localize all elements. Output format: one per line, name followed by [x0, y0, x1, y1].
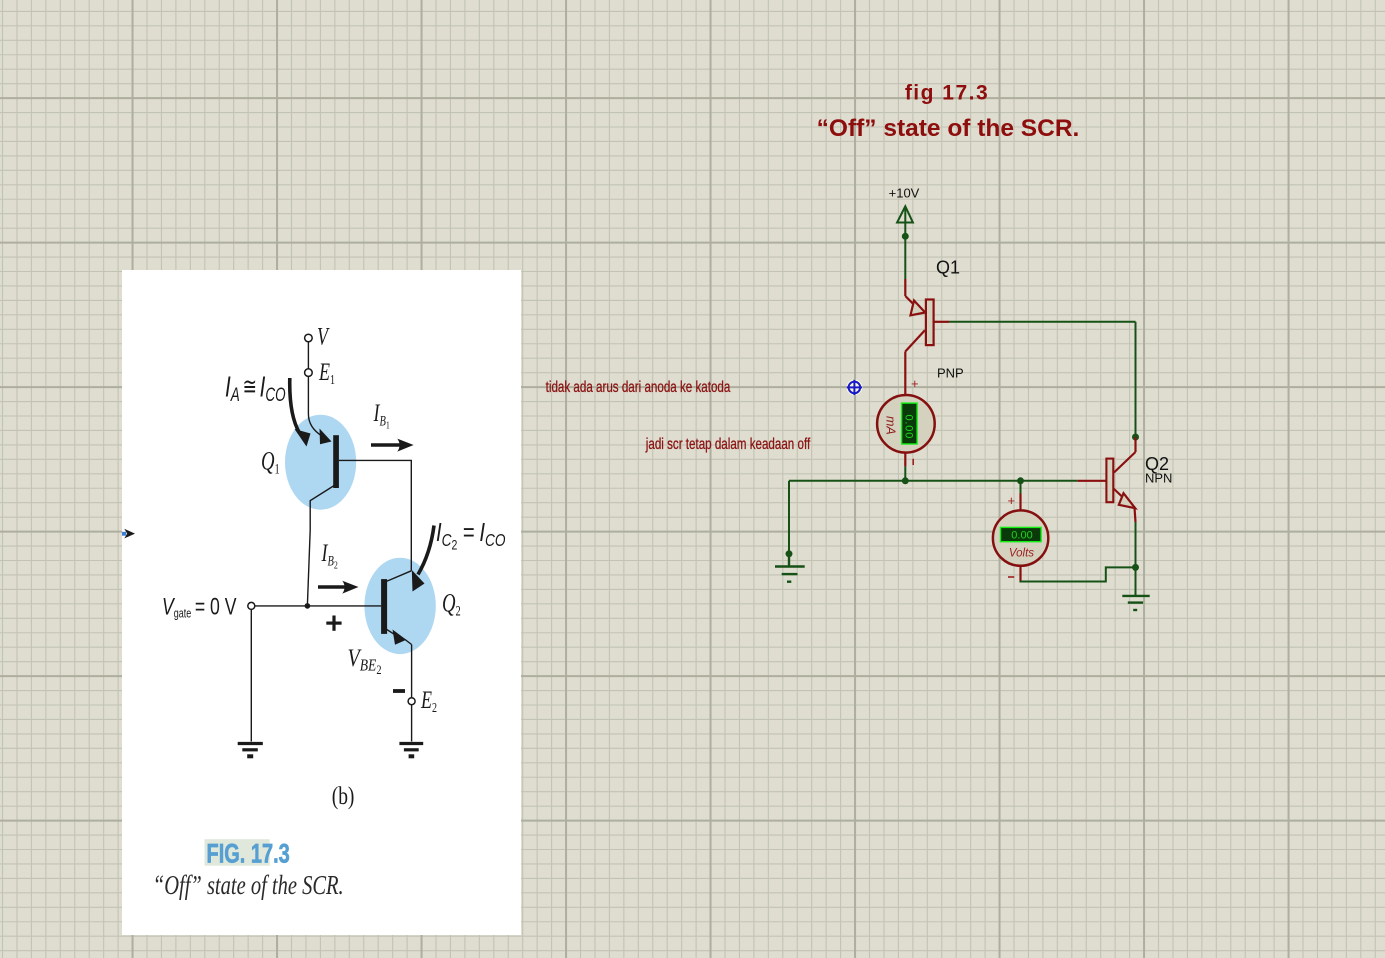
Q1 highlight ellipse (textbook) — [285, 415, 356, 510]
wire left leg down to ground — [788, 481, 790, 554]
label IB1 — [373, 399, 390, 432]
wire right rail down to Q2 collector node — [1135, 322, 1137, 437]
Q2 base bar — [1106, 459, 1113, 503]
svg-text:Q1: Q1 — [936, 258, 960, 278]
ground symbol textbook left — [238, 744, 263, 757]
junction dot at power node — [902, 233, 909, 240]
label IC2 = ICO — [436, 518, 505, 553]
svg-text:jadi scr tetap dalam keadaan o: jadi scr tetap dalam keadaan off — [645, 435, 810, 452]
label (b) — [332, 782, 355, 810]
Q1 collector line (textbook) — [307, 485, 335, 605]
IC2 thick curved arrow — [412, 526, 434, 592]
voltmeter Volts unit label — [1009, 547, 1034, 559]
Q2 base bar (textbook) — [381, 579, 387, 634]
power terminal +10V label — [889, 186, 920, 201]
Q1 label — [936, 258, 960, 278]
FIG. 17.3 highlight box — [205, 839, 270, 866]
svg-text:mA: mA — [884, 416, 898, 435]
ground symbol left — [775, 554, 805, 582]
annotation: tidak ada arus dari anoda ke katoda — [546, 378, 731, 395]
voltmeter top pin red part — [1019, 494, 1021, 511]
voltmeter bottom pin — [1019, 566, 1021, 582]
ammeter LCD reading 0.00 — [903, 415, 915, 440]
IB1 thick arrow — [371, 439, 414, 452]
label Q2 (textbook) — [442, 589, 461, 620]
ground symbol textbook right — [399, 744, 423, 757]
Q1 PNP emitter arrow (points into base) — [911, 301, 926, 316]
ammeter plus label — [911, 376, 919, 391]
terminal Vgate — [248, 602, 255, 609]
svg-text:+: + — [911, 376, 919, 391]
label V — [317, 323, 330, 351]
label E1 — [318, 358, 335, 387]
junction dot above left ground — [786, 550, 793, 557]
junction dot emitter node — [1132, 564, 1139, 571]
cursor marker at panel edge — [122, 529, 135, 539]
voltmeter LCD reading 0.00 — [1011, 529, 1032, 541]
voltmeter LCD display — [1001, 527, 1042, 541]
voltmeter plus label — [1008, 493, 1016, 508]
junction dot voltmeter tap — [1017, 477, 1024, 484]
gate wire to Q2 base — [255, 605, 381, 607]
junction dot Q2 collector node — [1132, 434, 1139, 441]
svg-text:tidak ada arus dari anoda ke k: tidak ada arus dari anoda ke katoda — [546, 378, 731, 395]
Q2 emitter line with arrow (textbook) — [386, 629, 412, 645]
Q2 highlight ellipse (textbook) — [364, 558, 435, 654]
Q1 collector pin — [905, 330, 925, 395]
schematic title line 2 — [817, 115, 1080, 142]
IA thick curved arrow — [290, 378, 311, 447]
wire ammeter to ground rail — [904, 466, 906, 480]
plus sign (textbook) — [326, 616, 341, 631]
ammeter minus label — [912, 459, 914, 465]
Q2 emitter pin with NPN arrow — [1114, 489, 1124, 498]
Q2 base pin stub — [1077, 480, 1106, 482]
ammeter body — [877, 395, 935, 453]
label E2 — [420, 686, 437, 715]
svg-text:Vgate= 0 V: Vgate= 0 V — [162, 593, 237, 621]
FIG. 17.3 caption — [207, 839, 290, 870]
minus sign (textbook) — [393, 689, 405, 693]
Q1 base bar (textbook) — [333, 435, 339, 488]
ammeter mA unit label — [884, 416, 898, 435]
Q1 base bar — [926, 300, 934, 346]
svg-text:Volts: Volts — [1009, 547, 1034, 559]
junction dot ammeter node — [902, 477, 909, 484]
ammeter bottom pin — [904, 453, 906, 467]
label IA = ICO — [225, 371, 286, 405]
junction dot gate node — [305, 603, 311, 609]
Q2 collector line (textbook) — [385, 571, 411, 582]
wire Q2 emitter to E2 — [411, 645, 413, 698]
ground symbol right — [1122, 596, 1149, 610]
Q2 NPN type label — [1145, 471, 1172, 486]
Q1 emitter pin (dark red) — [905, 279, 913, 304]
terminal V — [305, 334, 313, 342]
schematic title line 1 — [905, 82, 989, 105]
power terminal arrow symbol — [897, 206, 913, 236]
Q2 label — [1145, 454, 1169, 474]
figure panel background — [122, 270, 521, 935]
wire Q2 emitter to ground — [1135, 522, 1137, 596]
wire E1 to Q1 emitter with arrow — [308, 376, 331, 444]
svg-text:PNP: PNP — [937, 366, 964, 381]
svg-text:+: + — [1008, 493, 1016, 508]
wire Q1 base to right rail (textbook) — [339, 460, 411, 570]
label Q1 (textbook) — [261, 447, 280, 478]
caption "Off" state of the SCR. — [153, 871, 344, 900]
IB2 thick arrow — [318, 581, 359, 594]
svg-text:0.00: 0.00 — [1011, 529, 1032, 541]
wire E2 to ground — [411, 705, 413, 742]
wire power to Q1 emitter — [904, 236, 906, 279]
label Vgate = 0 V — [162, 593, 237, 621]
Q2 collector pin vertical — [1134, 437, 1136, 452]
svg-text:fig 17.3: fig 17.3 — [905, 82, 989, 105]
svg-text:+10V: +10V — [889, 186, 920, 201]
label VBE2 — [348, 644, 382, 677]
wire V to E1 — [307, 342, 309, 369]
wire Q1 base to right rail — [949, 321, 1136, 323]
svg-text:“Off” state of the SCR.: “Off” state of the SCR. — [817, 115, 1080, 142]
terminal E1 — [305, 369, 313, 377]
wire voltmeter minus to emitter node — [1021, 567, 1136, 581]
horizontal base rail wire — [789, 480, 1077, 482]
svg-text:NPN: NPN — [1145, 471, 1172, 486]
origin marker crosshair — [846, 379, 862, 395]
Q1 base pin stub — [934, 321, 949, 323]
svg-text:0.00: 0.00 — [903, 415, 915, 440]
voltmeter body — [993, 510, 1048, 565]
svg-text:FIG. 17.3: FIG. 17.3 — [207, 839, 290, 870]
voltmeter top pin green part — [1020, 481, 1022, 494]
svg-text:(b): (b) — [332, 782, 355, 810]
ammeter LCD display — [902, 403, 918, 444]
terminal E2 — [408, 698, 415, 705]
Q2 collector pin diagonal — [1114, 452, 1136, 473]
Q1 PNP type label — [937, 366, 964, 381]
label IB2 — [321, 539, 338, 572]
annotation: jadi scr tetap dalam keadaan off — [645, 435, 810, 452]
svg-text:“Off” state of the SCR.: “Off” state of the SCR. — [153, 871, 344, 900]
voltmeter minus label — [1008, 576, 1014, 578]
wire Vgate to ground — [250, 609, 252, 741]
